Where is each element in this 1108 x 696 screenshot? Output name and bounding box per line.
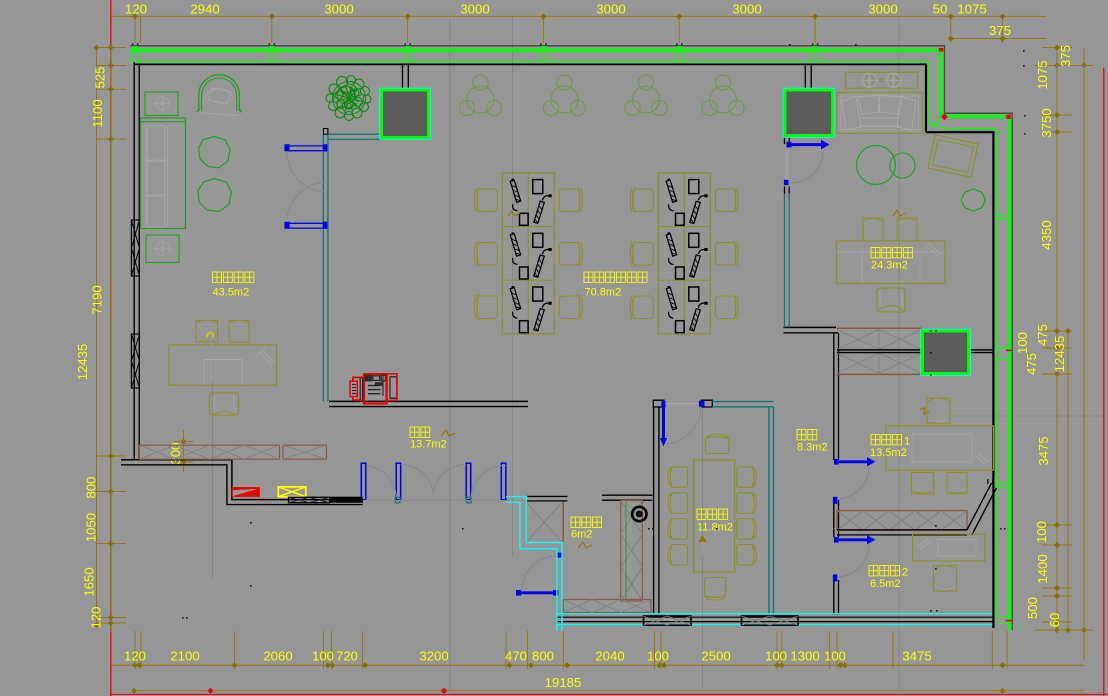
svg-text:12435: 12435 (75, 344, 90, 381)
meeting chair right 2 (737, 493, 754, 514)
svg-text:13.5m2: 13.5m2 (870, 447, 907, 459)
svg-text:375: 375 (989, 23, 1011, 38)
wall GM south brown (837, 327, 922, 329)
wall manager west b (833, 500, 835, 537)
label open office (584, 272, 593, 282)
svg-text:475: 475 (1035, 324, 1050, 346)
sill X-box A (644, 616, 692, 625)
door manager2 blue (836, 538, 868, 541)
guest chair b (229, 321, 249, 343)
svg-text:3475: 3475 (902, 649, 931, 664)
dim 300 near step (183, 430, 185, 472)
window chairman W1 (288, 145, 327, 147)
svg-text:8.3m2: 8.3m2 (797, 442, 828, 454)
green wall NE chamfer (931, 118, 941, 128)
svg-text:120: 120 (124, 649, 146, 664)
meeting table (694, 460, 735, 572)
trefoil table @480.5 (467, 86, 494, 113)
svg-text:2: 2 (902, 567, 908, 579)
label manager1 (871, 435, 880, 445)
column C1 (380, 88, 430, 139)
wall left outer (133, 62, 135, 461)
door manager2 arc (838, 545, 869, 577)
wall GM brown sill low (837, 373, 922, 375)
red frame bottom (110, 693, 1108, 695)
axis line F horizontal (953, 415, 1103, 417)
GM console (846, 72, 918, 88)
wall manager west c (833, 580, 835, 615)
door meeting blue tick (699, 401, 705, 407)
wall left inner (138, 64, 140, 460)
svg-text:500: 500 (1025, 597, 1040, 619)
tea cabinet X hatch (527, 503, 562, 542)
axis line C (511, 17, 513, 556)
wall GM west black a (784, 137, 786, 145)
svg-text:2100: 2100 (170, 649, 199, 664)
door manager2 tick (833, 574, 837, 581)
meeting chair right 1 (737, 467, 754, 488)
right mid dim line (1067, 331, 1069, 630)
svg-text:1075: 1075 (1035, 60, 1050, 89)
entrance threshold line (362, 499, 507, 501)
armchair round (199, 75, 240, 111)
svg-text:100: 100 (824, 649, 846, 664)
column stub C2 (804, 65, 806, 90)
partition chairman teal vert (322, 134, 324, 401)
svg-text:19185: 19185 (545, 675, 582, 690)
meeting chair right 3 (737, 519, 754, 540)
GM sofa large (837, 93, 923, 134)
svg-text:12435: 12435 (1052, 336, 1067, 373)
green wall NE corner inner (929, 62, 996, 129)
red frame left (110, 0, 112, 696)
wall bottom-left step inner (121, 465, 363, 505)
wall tea north-west (527, 495, 568, 497)
tea counter vertical (621, 501, 643, 602)
GM guest chair b (897, 218, 917, 241)
entrance door leaves (361, 463, 366, 500)
mgr1 guest chair b (947, 473, 967, 494)
wall GM west black b (784, 187, 786, 194)
plant (329, 84, 339, 94)
door arc chairman lower (287, 182, 327, 222)
svg-text:525: 525 (93, 66, 108, 88)
wall front-hall north (329, 400, 528, 402)
wall meeting north-east piece (701, 400, 712, 407)
endtable 1 (145, 92, 178, 116)
svg-text:3000: 3000 (324, 1, 353, 16)
open office leader mark (508, 211, 520, 216)
wall bottom cyan pair (557, 613, 992, 615)
svg-text:800: 800 (532, 649, 554, 664)
office chair R1r1 (559, 187, 582, 213)
osnap dots (1023, 50, 1025, 52)
office chair L1r1 (474, 187, 497, 213)
svg-text:2500: 2500 (701, 649, 730, 664)
guest chair a (196, 321, 218, 343)
wall top inner (134, 63, 927, 65)
column C3 (921, 329, 970, 375)
wall meeting north teal (712, 401, 773, 403)
trefoil table @646 (633, 86, 660, 113)
svg-text:100: 100 (1015, 332, 1030, 354)
bottom dimension line (111, 664, 1085, 666)
axis line A (212, 332, 214, 580)
door manager1 arc (838, 467, 869, 499)
door GM blue line (789, 143, 822, 146)
window chairman W2 (288, 222, 327, 224)
svg-text:3000: 3000 (868, 1, 897, 16)
entrance hinge ticks (395, 497, 400, 503)
mgr2 chair (934, 566, 957, 592)
wall meeting east teal (768, 407, 770, 615)
label tea leader (578, 542, 592, 548)
mgr1 chair top (927, 398, 950, 423)
svg-text:6m2: 6m2 (571, 529, 592, 541)
partition top black cap (323, 129, 328, 135)
green wall right inner (995, 129, 997, 617)
wall left pier hatch upper (131, 220, 139, 276)
svg-text:11.8m2: 11.8m2 (697, 522, 733, 534)
entrance arc 1 (366, 466, 396, 498)
svg-text:100: 100 (765, 649, 787, 664)
column C2 (783, 88, 834, 137)
office chair L1r2 (474, 241, 497, 267)
GM desk (837, 241, 946, 284)
wall meeting west (653, 407, 655, 615)
svg-text:1400: 1400 (1035, 554, 1050, 583)
door tea tick (557, 553, 563, 558)
green wall right outer (1008, 116, 1011, 631)
svg-text:3000: 3000 (732, 1, 761, 16)
wall GM south black (784, 326, 837, 328)
copier red (364, 374, 387, 404)
door tea arc (522, 556, 556, 590)
pouf 2 (198, 179, 232, 212)
wall NE inner corner (926, 64, 993, 628)
column stub C1 (402, 65, 404, 90)
svg-text:50: 50 (933, 1, 948, 16)
meeting chair top (706, 437, 730, 454)
cabinet brown A (140, 445, 280, 459)
svg-text:1: 1 (904, 436, 910, 448)
roof outline dark grey (130, 46, 1012, 630)
meeting chair bottom (705, 578, 726, 598)
office chair R2r1 (715, 187, 738, 213)
office chair L1r3 (474, 294, 497, 320)
sill X-box entrance (289, 497, 330, 502)
svg-text:7190: 7190 (90, 285, 105, 314)
tea room cyan outline outer (506, 497, 562, 631)
door manager1 tick (833, 497, 837, 504)
office chair L2r2 (630, 241, 653, 267)
label GM (871, 248, 880, 258)
left overall dim line (96, 48, 98, 626)
red wedge symbol (232, 487, 260, 497)
svg-text:2940: 2940 (190, 1, 219, 16)
entrance arc 3 (471, 465, 506, 497)
meeting chair left 1 (671, 467, 688, 488)
yellow X box (278, 487, 306, 497)
GM round table big (857, 146, 896, 185)
label corridor (797, 430, 806, 440)
tea room cyan outline inner (506, 502, 557, 631)
trefoil table @723 (710, 86, 737, 113)
svg-text:800: 800 (84, 476, 99, 498)
svg-text:3000: 3000 (596, 1, 625, 16)
bottom overall dim line 19185 (134, 690, 1084, 692)
meeting leader mark (698, 535, 707, 542)
wall GM south hatch bands (837, 330, 879, 350)
trefoil table @564.5 (551, 86, 578, 113)
axis line B (449, 18, 451, 691)
wall mgr divider brown band (837, 511, 967, 531)
office chair R1r3 (559, 294, 582, 320)
office chair R1r2 (559, 241, 582, 267)
office chair R2r2 (715, 241, 738, 267)
svg-text:3200: 3200 (419, 649, 448, 664)
wall bottom-left step outer (121, 460, 363, 500)
workstation cluster 1 (502, 173, 554, 334)
cabinet brown B (283, 445, 327, 459)
wall manager west a (833, 333, 835, 460)
right detail dim line (1056, 47, 1058, 631)
top dimension line (111, 15, 1047, 17)
axis line D (702, 408, 704, 688)
sofa (141, 118, 186, 229)
door GM arc (790, 150, 823, 183)
svg-text:70.8m2: 70.8m2 (585, 287, 622, 299)
mgr2 desk (913, 534, 986, 561)
door meeting arc (666, 407, 701, 444)
red frame right (1103, 68, 1105, 696)
svg-text:60: 60 (1047, 613, 1062, 628)
red corner dot b (1006, 115, 1011, 119)
svg-text:100: 100 (312, 649, 334, 664)
label front hall leader (441, 430, 455, 436)
tea counter horizontal (563, 600, 651, 613)
label chairman (213, 272, 222, 282)
svg-text:2040: 2040 (595, 649, 624, 664)
red corner dot a (941, 113, 948, 120)
door tea blue (519, 591, 554, 594)
chairman chair (210, 393, 239, 415)
svg-text:43.5m2: 43.5m2 (213, 287, 250, 299)
wall GM west teal (784, 194, 786, 328)
workstation cluster 2 (658, 173, 710, 334)
svg-text:4350: 4350 (1039, 220, 1054, 249)
top dim 375 line (951, 38, 1046, 40)
office chair L2r3 (630, 294, 653, 320)
label meeting (697, 509, 706, 519)
GM guest chair a (863, 218, 883, 241)
wall GM west grey leaf (785, 150, 787, 181)
axis line E (898, 17, 900, 691)
svg-text:120: 120 (125, 1, 147, 16)
svg-text:100: 100 (647, 649, 669, 664)
wall mgr diagonal top stub (988, 479, 993, 484)
left detail dim line (110, 47, 112, 632)
endtable 2 (146, 235, 179, 263)
svg-text:13.7m2: 13.7m2 (410, 439, 447, 451)
tea floor drain (632, 507, 646, 521)
mgr1 guest chair a (912, 473, 934, 495)
door meeting opening line (665, 403, 701, 405)
GM octagon (961, 189, 986, 211)
GM leader mark (893, 210, 905, 216)
chairman leader mark (207, 333, 214, 338)
meeting chair left 2 (671, 493, 688, 514)
wall mgr diagonal (967, 483, 996, 535)
label front hall (410, 427, 419, 437)
green wall mullion connectors (131, 49, 133, 63)
label tea room (571, 517, 580, 527)
office chair R2r3 (715, 294, 738, 320)
chairman desk (169, 345, 277, 385)
right overall dim line (1083, 48, 1085, 661)
svg-text:1075: 1075 (957, 1, 986, 16)
green wall top thin (131, 61, 929, 63)
svg-text:3750: 3750 (1039, 108, 1054, 137)
meeting chair left 4 (671, 545, 688, 566)
wall tea north-east (602, 494, 653, 496)
svg-text:1300: 1300 (790, 649, 819, 664)
svg-text:120: 120 (89, 606, 104, 628)
mgr1 desk (886, 426, 994, 471)
GM round table small (890, 153, 915, 178)
pouf 1 (199, 137, 231, 168)
svg-text:1100: 1100 (90, 99, 105, 127)
door meeting leaf (662, 404, 665, 439)
GM chair (877, 288, 905, 312)
door arc chairman upper (287, 152, 327, 192)
partition chairman teal horiz (328, 133, 381, 135)
svg-text:375: 375 (1058, 45, 1073, 67)
svg-text:475: 475 (1024, 353, 1039, 375)
wall manager north (837, 349, 994, 351)
tea cabinet brown edge (562, 502, 564, 543)
svg-text:24.3m2: 24.3m2 (871, 260, 908, 272)
sill X-box B (742, 616, 799, 625)
mgr1 leader (920, 408, 929, 414)
entrance arc 2 (401, 465, 466, 496)
red corner dot c (939, 48, 944, 52)
wall left pier hatch lower (131, 334, 139, 388)
door manager1 blue (836, 460, 868, 463)
green wall right crossbars (997, 214, 1009, 216)
svg-text:1650: 1650 (82, 567, 97, 596)
wall bottom black pair (557, 616, 993, 618)
green wall top thick (131, 49, 943, 52)
office chair L2r1 (630, 187, 653, 213)
svg-text:2060: 2060 (263, 649, 292, 664)
svg-text:3000: 3000 (460, 1, 489, 16)
label manager2 (869, 566, 878, 576)
svg-text:3475: 3475 (1036, 436, 1051, 465)
door GM blue tick (784, 180, 789, 185)
svg-text:100: 100 (1034, 521, 1049, 543)
svg-text:470: 470 (505, 649, 527, 664)
wall mgr divider black (837, 529, 967, 531)
wall chunk entrance (331, 497, 363, 502)
wall meeting north-west piece (653, 400, 664, 407)
GM rotated board (928, 135, 978, 177)
svg-text:6.5m2: 6.5m2 (870, 578, 901, 590)
meeting chair left 3 (671, 519, 688, 540)
svg-text:1050: 1050 (84, 513, 99, 542)
svg-text:720: 720 (336, 649, 358, 664)
green wall NE corner outer (941, 49, 1008, 117)
meeting chair right 4 (737, 545, 754, 566)
